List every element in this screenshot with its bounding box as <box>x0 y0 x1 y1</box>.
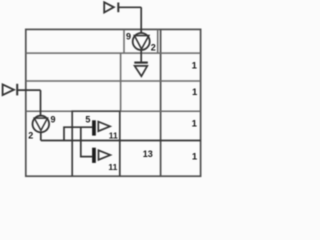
svg-text:5: 5 <box>85 114 90 124</box>
svg-text:9: 9 <box>126 31 131 41</box>
svg-text:11: 11 <box>108 162 117 172</box>
svg-text:13: 13 <box>143 149 153 159</box>
svg-text:2: 2 <box>151 43 156 53</box>
svg-text:11: 11 <box>109 131 118 141</box>
svg-text:1: 1 <box>192 152 198 163</box>
svg-text:1: 1 <box>192 118 198 129</box>
svg-text:1: 1 <box>192 61 198 72</box>
svg-text:1: 1 <box>192 87 198 98</box>
svg-text:2: 2 <box>28 130 33 140</box>
svg-text:9: 9 <box>50 114 55 124</box>
